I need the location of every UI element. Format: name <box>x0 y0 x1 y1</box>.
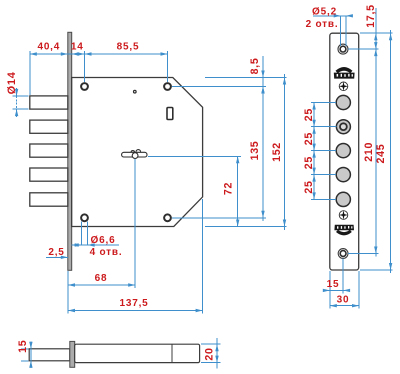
dim line 72 <box>237 156 239 226</box>
screw hole bottom-left <box>81 214 88 221</box>
small pin hole <box>134 90 137 93</box>
right view: top hole ext <box>348 48 379 50</box>
svg-text:137,5: 137,5 <box>119 298 148 309</box>
Ø5,2 leader <box>313 15 353 17</box>
svg-text:20: 20 <box>204 347 216 360</box>
210 arrows <box>374 49 377 56</box>
137,5 arrows <box>68 309 75 312</box>
svg-text:Ø14: Ø14 <box>6 71 18 94</box>
bottom mount hole <box>338 249 348 259</box>
side-view bolt <box>29 349 70 361</box>
dim line 68 <box>68 284 135 286</box>
side-view lock body <box>75 344 200 362</box>
svg-text:152: 152 <box>271 142 283 162</box>
svg-text:4 отв.: 4 отв. <box>90 247 123 258</box>
bolt 1 <box>30 96 68 109</box>
bolt hole 1 <box>336 95 350 109</box>
right side ext: body top <box>205 77 287 79</box>
screw hole top-right <box>164 83 171 90</box>
right side ext: hole bottom <box>172 217 266 219</box>
right side ext: hole top <box>172 86 266 88</box>
bolt hole 3 <box>336 168 350 182</box>
Ø5,2 tangent lines <box>340 16 342 46</box>
bolt 4 <box>30 168 68 181</box>
rectangular slot <box>167 108 173 120</box>
15/30 ext lines (right view) <box>329 271 331 309</box>
bolt 3 <box>30 144 68 157</box>
2,5 arrow line <box>46 256 68 258</box>
ext line bolt left <box>29 51 31 95</box>
bolt hole 4 <box>336 192 350 206</box>
svg-text:8,5: 8,5 <box>249 58 261 75</box>
svg-text:Ø5,2: Ø5,2 <box>312 6 337 17</box>
svg-text:17,5: 17,5 <box>365 4 377 27</box>
svg-text:25: 25 <box>303 108 315 121</box>
25 arrows <box>312 103 315 110</box>
152 arrows <box>283 78 286 85</box>
135 arrows <box>261 87 264 94</box>
side-view faceplate <box>70 341 75 367</box>
svg-text:245: 245 <box>375 144 387 164</box>
svg-text:15: 15 <box>17 340 29 353</box>
side-view seam <box>171 344 173 362</box>
faceplate bar (main view) <box>68 32 72 270</box>
side view 20 ext lines <box>201 343 221 345</box>
8,5 arrows (outside) <box>261 71 264 78</box>
2,5 arrow <box>61 256 68 259</box>
svg-text:25: 25 <box>303 132 315 145</box>
Ø14 dim line <box>16 88 18 96</box>
phillips screw top <box>339 82 348 91</box>
dim line 152 <box>284 74 286 230</box>
faceplate ext down <box>67 271 69 314</box>
top mount hole <box>338 44 348 54</box>
side view dim line 15 <box>30 342 32 369</box>
phillips screw bottom <box>339 211 348 220</box>
Ø14 arrows (outside) <box>15 89 18 96</box>
svg-text:2,5: 2,5 <box>48 247 64 258</box>
Ø6,6 arrows <box>72 243 79 246</box>
dim line 30 <box>330 305 359 307</box>
svg-text:40,4: 40,4 <box>37 41 60 52</box>
side view dim line 20 <box>216 338 218 369</box>
logo stamp top <box>334 67 355 79</box>
bolt hole 2 <box>336 144 350 158</box>
cam lever <box>122 150 147 159</box>
screw hole top-left <box>81 83 88 90</box>
dim line 137,5 <box>68 310 203 312</box>
faceplate front <box>330 33 359 270</box>
side view 15 ext lines <box>21 348 29 350</box>
25 connector lines <box>311 102 336 104</box>
logo stamp bottom <box>334 225 354 236</box>
body right ext down <box>202 199 204 314</box>
ext line hole B <box>167 51 169 82</box>
bolt 2 <box>30 120 68 133</box>
svg-text:15: 15 <box>327 279 340 290</box>
Ø6,6 tangent lines <box>81 222 83 246</box>
svg-text:30: 30 <box>337 294 350 305</box>
svg-text:68: 68 <box>95 273 108 284</box>
svg-text:14: 14 <box>71 41 84 52</box>
72 arrows <box>236 156 239 163</box>
dim line 17,5 + 210 <box>375 8 377 257</box>
ext line hole A <box>84 51 86 82</box>
Ø5,2 arrows (outside) <box>334 14 341 17</box>
right view: bottom edge ext <box>360 269 393 271</box>
cam ext line right <box>148 155 241 157</box>
68 arrows <box>68 283 75 286</box>
Ø6,6 leader <box>72 244 119 246</box>
right view: top edge ext <box>360 32 393 34</box>
245 arrows <box>389 33 392 40</box>
side 20 arrows <box>215 344 218 351</box>
right side ext: body bottom <box>205 226 287 228</box>
right view: bottom hole ext <box>348 253 379 255</box>
svg-text:25: 25 <box>303 180 315 193</box>
svg-text:85,5: 85,5 <box>117 41 140 52</box>
dim line 245 <box>390 30 392 273</box>
side 15 arrows <box>29 342 32 349</box>
top dim chain line <box>30 53 168 55</box>
dim line 15 (right view) <box>324 289 350 291</box>
15 arrows (right view) <box>323 289 330 292</box>
17,5 arrows <box>374 33 377 40</box>
svg-text:2 отв.: 2 отв. <box>306 19 339 30</box>
svg-text:210: 210 <box>363 142 375 162</box>
Ø14 ext lines <box>13 95 29 97</box>
dim line 8,5 + 135 <box>262 56 264 221</box>
svg-text:72: 72 <box>223 182 235 195</box>
cylinder hole (ring) <box>336 120 350 134</box>
svg-text:135: 135 <box>249 141 261 161</box>
screw hole bottom-right <box>164 214 171 221</box>
lock body outline <box>72 78 203 227</box>
cam ext line down <box>134 159 136 288</box>
25 dim line <box>313 103 315 200</box>
svg-text:Ø6,6: Ø6,6 <box>91 235 116 246</box>
30 arrows <box>330 304 337 307</box>
top chain arrows <box>30 52 37 55</box>
svg-text:25: 25 <box>303 156 315 169</box>
bolt 5 <box>30 193 68 206</box>
